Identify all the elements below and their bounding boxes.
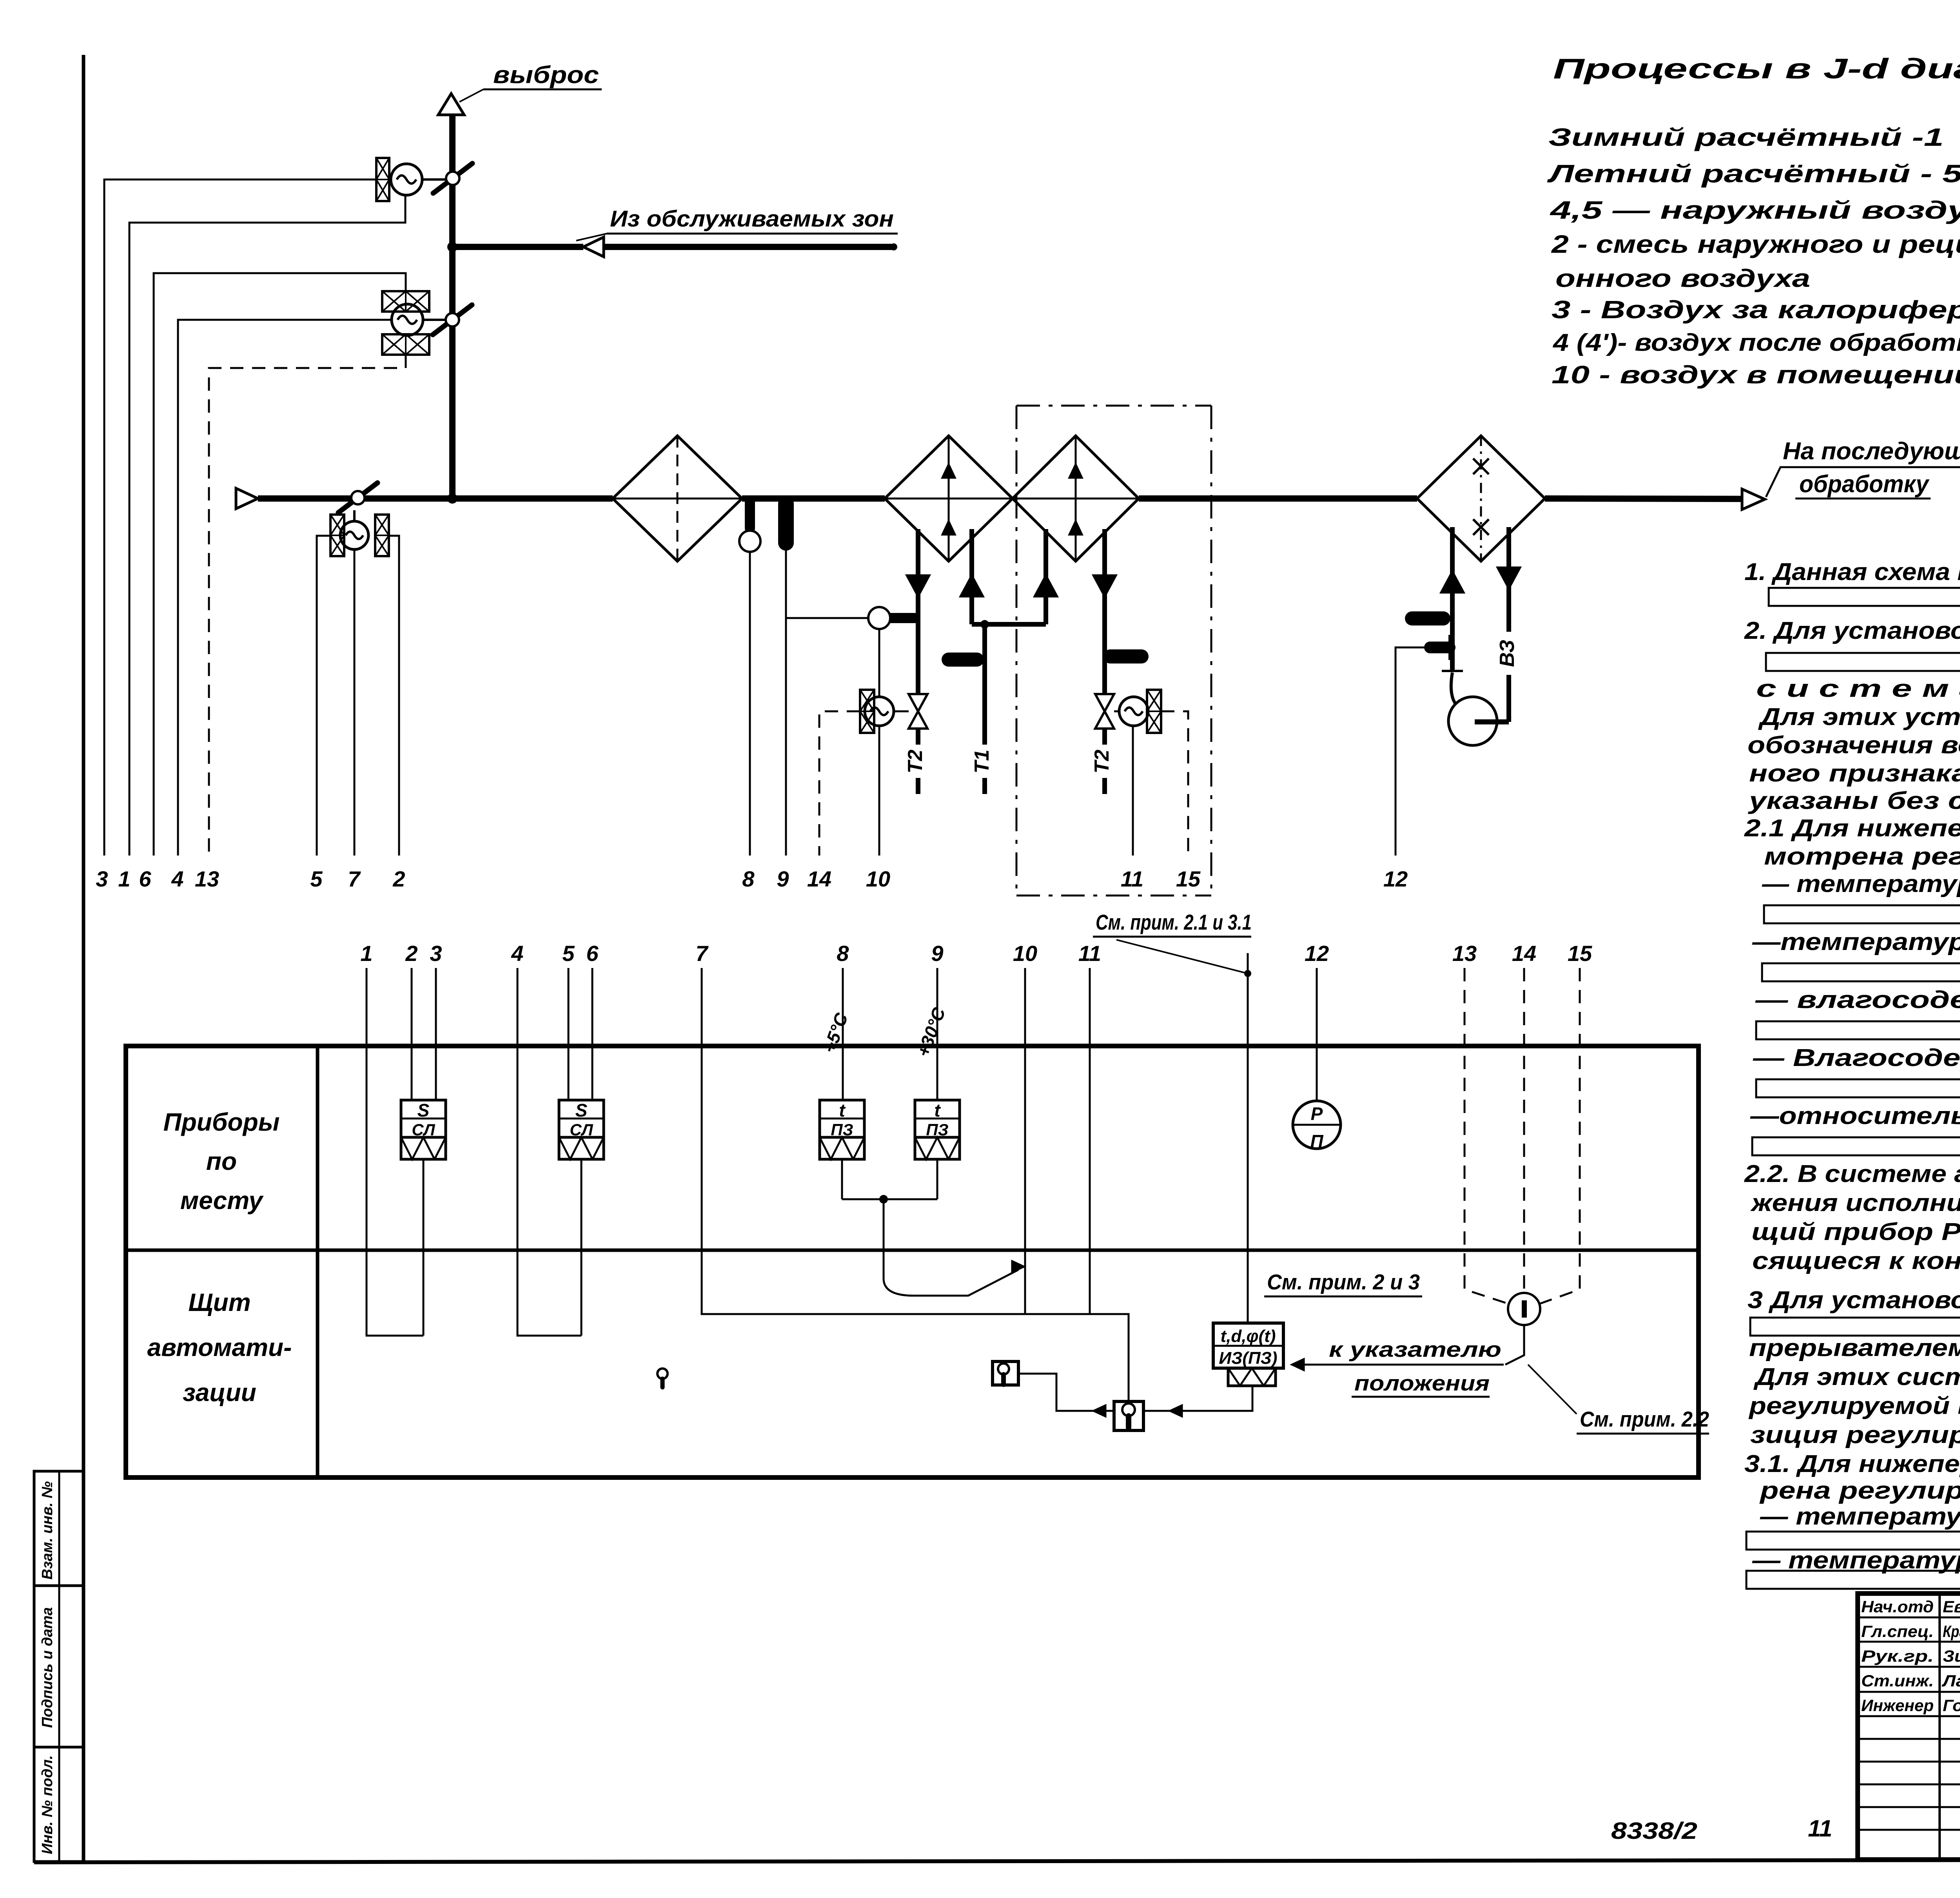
connector symbol	[657, 1369, 668, 1379]
svg-text:7: 7	[695, 941, 709, 966]
table line 14 dashed	[1523, 968, 1525, 1293]
sensor 9 thermometer black	[778, 504, 794, 543]
wire F3 right box to terminal 2	[389, 536, 399, 856]
note 3 blank box b	[1750, 1318, 1960, 1336]
svg-text:3: 3	[430, 941, 442, 966]
note 21 box row 4	[1756, 1079, 1960, 1097]
sheet bottom border	[34, 1859, 1960, 1862]
svg-text:зиция регулирующего прибора: зиция регулирующего прибора указаны в ск…	[1750, 1421, 1960, 1448]
svg-text:14: 14	[807, 867, 831, 891]
filter diamond	[613, 436, 742, 561]
regulator actuator hatch	[1228, 1368, 1276, 1386]
stems t instruments joined	[841, 1159, 843, 1199]
note 1 blank box	[1769, 588, 1960, 606]
svg-text:Гл.спец.: Гл.спец.	[1861, 1622, 1934, 1641]
spray pipe left up	[1450, 527, 1455, 671]
leader to zone label	[576, 234, 607, 241]
wire F2 to terminal 4	[178, 320, 392, 856]
table line 10	[1024, 968, 1026, 1314]
instrument table frame	[126, 1046, 1699, 1477]
svg-text:ВЗ: ВЗ	[1496, 640, 1519, 667]
thermometer on pipe heater2	[1110, 649, 1142, 663]
svg-text:Т2: Т2	[904, 750, 927, 774]
svg-text:S: S	[575, 1100, 588, 1120]
svg-text:7: 7	[348, 867, 361, 891]
svg-text:Т2: Т2	[1091, 750, 1113, 774]
svg-text:—относительной влажности в о: —относительной влажности в обслуживаемой…	[1750, 1102, 1960, 1129]
wire pipe sensor to line 9	[787, 617, 868, 619]
wire F3 left box to terminal 5	[317, 536, 330, 856]
exhaust fan F1	[391, 164, 422, 195]
table line 8	[842, 968, 844, 1100]
svg-text:1: 1	[360, 941, 372, 966]
svg-text:3: 3	[96, 867, 108, 891]
svg-text:Лазаренко: Лазаренко	[1942, 1671, 1960, 1690]
instrument S-SL box B	[559, 1100, 604, 1137]
svg-text:—температуры воды в поддоне: —температуры воды в поддоне камеры ороше…	[1752, 928, 1960, 955]
svg-text:Красошевский: Красошевский	[1943, 1622, 1960, 1641]
svg-text:Приборы: Приборы	[163, 1108, 280, 1136]
note 31 box row 2	[1746, 1571, 1960, 1589]
svg-text:2: 2	[405, 941, 417, 966]
svg-text:15: 15	[1568, 941, 1592, 966]
svg-text:Для этих систем в условном: Для этих систем в условном изображении р…	[1753, 1363, 1960, 1390]
svg-text:Инженер: Инженер	[1861, 1696, 1934, 1715]
svg-text:8: 8	[837, 941, 849, 966]
valve on pipe T2 heater1	[909, 694, 927, 711]
title block outer frame	[1858, 1593, 1960, 1860]
svg-text:Р: Р	[1311, 1104, 1323, 1124]
svg-text:зации: зации	[183, 1378, 256, 1407]
table line 3	[435, 968, 437, 1100]
table column divider	[316, 1046, 319, 1477]
svg-text:жения исполнительных механиз: жения исполнительных механизмов по встро…	[1750, 1189, 1960, 1216]
node junction recirculation	[447, 242, 457, 252]
svg-text:10: 10	[1013, 941, 1037, 966]
title block left table verticals	[1938, 1593, 1941, 1860]
stem instrument A	[423, 1159, 425, 1336]
valve actuator fan F5	[1119, 697, 1148, 726]
note 31 box row 1	[1746, 1532, 1960, 1550]
instrument t-PZ box C	[820, 1100, 864, 1137]
stem instrument B	[581, 1159, 583, 1336]
svg-text:— температуры воздуха за кам: — температуры воздуха за камерой орошени…	[1762, 870, 1960, 897]
actuator box of F4	[860, 690, 874, 733]
thermometer on spray pipe	[1412, 611, 1443, 625]
svg-text:12: 12	[1383, 867, 1408, 891]
pipe T2 heater1 down	[916, 529, 920, 694]
svg-text:— Влагосодержания в обслужива: — Влагосодержания в обслуживаемой зоне ,…	[1753, 1044, 1960, 1071]
svg-text:См. прим. 2.1 и 3.1: См. прим. 2.1 и 3.1	[1096, 910, 1252, 934]
svg-text:t,d,φ(t): t,d,φ(t)	[1221, 1327, 1276, 1346]
svg-text:13: 13	[195, 867, 219, 891]
return air inlet triangle	[583, 237, 604, 257]
duct outlet arrow	[1742, 489, 1765, 509]
svg-text:Рук.гр.: Рук.гр.	[1861, 1647, 1934, 1665]
svg-text:Зингерман: Зингерман	[1943, 1647, 1960, 1665]
svg-text:См. прим. 2 и 3: См. прим. 2 и 3	[1267, 1270, 1420, 1294]
heater 2 diamond	[1013, 436, 1139, 561]
note 21 box row 1	[1764, 905, 1960, 923]
wire F3 to terminal 7	[354, 549, 356, 856]
actuator box of F2 upper	[382, 291, 429, 312]
wire regulator to position indicator	[1292, 1364, 1504, 1366]
svg-text:9: 9	[931, 941, 943, 966]
regulator box t d phi	[1213, 1323, 1283, 1368]
svg-text:П: П	[1310, 1131, 1323, 1151]
svg-text:— температуры воздуха за ка: — температуры воздуха за камерой орошени…	[1760, 1503, 1960, 1530]
leader sm prim to line	[1116, 940, 1248, 973]
svg-text:3 - Воздух за калорифером: 3 - Воздух за калорифером	[1552, 295, 1960, 324]
svg-text:4: 4	[171, 867, 183, 891]
svg-text:4: 4	[511, 941, 523, 966]
svg-text:2 - смесь наружного и рециркул: 2 - смесь наружного и рециркуляци-	[1551, 230, 1960, 258]
spray pump circle	[1448, 697, 1497, 745]
pipe T2 heater2 down	[1102, 529, 1107, 694]
svg-text:мотрена регулирование следу: мотрена регулирование следующих параметр…	[1764, 843, 1960, 870]
table line 1	[367, 968, 423, 1336]
svg-text:6: 6	[586, 941, 599, 966]
table row divider	[126, 1249, 1699, 1252]
svg-text:ИЗ(ПЗ): ИЗ(ПЗ)	[1219, 1349, 1277, 1368]
heater 1 diamond	[885, 436, 1013, 561]
table line 12	[1316, 968, 1318, 1101]
svg-text:Зимний расчётный -1 →2→3→4: Зимний расчётный -1 →2→3→4	[1548, 123, 1960, 151]
svg-text:2. Для установок кондициониров: 2. Для установок кондиционирования	[1744, 617, 1960, 644]
svg-text:обозначения возможных регулиру: обозначения возможных регулируемых велич…	[1748, 732, 1960, 759]
outdoor air inlet triangle	[236, 488, 258, 509]
svg-text:с и с т е м а а в т о м а: с и с т е м а а в т о м а т и з а ц и и …	[1756, 675, 1960, 702]
regulator feed line	[1247, 953, 1249, 1323]
svg-text:положения: положения	[1354, 1371, 1490, 1395]
pump outlet elbow	[1475, 720, 1509, 725]
svg-text:2.2. В системе автоматизации: 2.2. В системе автоматизации 1 класса пр…	[1744, 1160, 1960, 1187]
svg-text:по: по	[206, 1147, 237, 1175]
node junction at main duct	[447, 493, 457, 504]
svg-text:щий прибор Р 25.1.2 индикат: щий прибор Р 25.1.2 индикатору. На схеме…	[1751, 1218, 1960, 1245]
valve actuator fan F4	[865, 697, 894, 726]
note 21 box row 2	[1762, 963, 1960, 981]
wire F2 lower box to terminal 13 dashed	[209, 355, 406, 856]
svg-text:10 - воздух в помещении: 10 - воздух в помещении	[1552, 361, 1960, 389]
damper D2 recirculation	[433, 305, 472, 335]
svg-text:На последующую: На последующую	[1783, 438, 1960, 465]
note 2 blank box b	[1766, 653, 1960, 671]
manual switch Q1	[993, 1361, 1018, 1385]
svg-text:14: 14	[1512, 941, 1536, 966]
main duct segment 4	[1545, 499, 1742, 499]
supply fan F3	[340, 521, 368, 549]
svg-text:2.1 Для нижеперечисленных ус: 2.1 Для нижеперечисленных установок конд…	[1744, 815, 1960, 842]
wire F5 to terminal 11	[1132, 726, 1134, 856]
svg-text:Евтушенко: Евтушенко	[1943, 1597, 1960, 1616]
actuator box of F5	[1147, 690, 1161, 733]
table line 2	[411, 968, 413, 1100]
thermometer on pipe T1	[949, 653, 977, 667]
svg-text:сящиеся к контролю положени: сящиеся к контролю положения , показаны …	[1752, 1247, 1960, 1274]
svg-text:11: 11	[1078, 941, 1101, 966]
table line 7 to switch	[702, 968, 1129, 1401]
svg-text:Т1: Т1	[971, 750, 993, 774]
svg-text:регулируемой величины и функ: регулируемой величины и функционального …	[1748, 1392, 1960, 1419]
pipe heater1 up	[969, 529, 974, 624]
table line 4	[517, 968, 581, 1336]
pressure gauge P-P	[1293, 1101, 1341, 1149]
pipe heater2 up	[1044, 529, 1048, 624]
svg-text:Горшенино: Горшенино	[1943, 1696, 1960, 1715]
svg-text:4 (4')- воздух после обработки: 4 (4')- воздух после обработки в 1 конту…	[1552, 329, 1960, 356]
left margin strip frame	[34, 1471, 83, 1862]
actuator box of F3 right	[375, 515, 389, 556]
main duct segment 2	[742, 495, 885, 502]
note 21 box row 5	[1752, 1137, 1960, 1155]
title block left table rows	[1858, 1617, 1960, 1619]
actuator box of F1	[376, 158, 389, 201]
svg-text:Инв. № подл.: Инв. № подл.	[39, 1755, 56, 1854]
second stage dash-dot box	[1016, 405, 1211, 407]
svg-text:Процессы в J-d диаграмме: Процессы в J-d диаграмме	[1553, 53, 1960, 85]
return air line	[452, 244, 583, 250]
svg-text:11: 11	[1808, 1815, 1832, 1842]
svg-text:Нач.отд: Нач.отд	[1861, 1597, 1934, 1616]
valve on pipe T2 heater2	[1095, 694, 1114, 711]
svg-text:Подпись и дата: Подпись и дата	[39, 1607, 56, 1728]
svg-text:рена регулирование следующих: рена регулирование следующих параметров …	[1759, 1477, 1960, 1504]
svg-text:1: 1	[118, 867, 130, 891]
wire sensor 9 to terminal 9	[785, 545, 787, 856]
pipe T1 supply	[982, 624, 987, 745]
svg-text:t: t	[934, 1100, 941, 1120]
manual switch Q2	[1114, 1401, 1143, 1430]
wire Q1 to Q2	[1018, 1374, 1114, 1411]
svg-text:обработку: обработку	[1799, 471, 1930, 498]
svg-text:9: 9	[777, 867, 789, 891]
label na posleduyushchuyu obrabotku	[1766, 467, 1960, 497]
leader to vybros	[459, 89, 483, 102]
table line 6	[592, 968, 593, 1100]
pipe header T1 horizontal	[972, 622, 1046, 627]
svg-text:S: S	[417, 1100, 430, 1120]
svg-text:8: 8	[742, 867, 755, 891]
svg-text:5: 5	[562, 941, 575, 966]
svg-text:5: 5	[310, 867, 323, 891]
position indicator contact circle	[1508, 1293, 1540, 1325]
svg-text:1. Данная схема применена для: 1. Данная схема применена для следующих …	[1744, 558, 1960, 586]
svg-text:t: t	[839, 1100, 846, 1120]
svg-text:онного воздуха: онного воздуха	[1555, 264, 1810, 292]
svg-text:См. прим. 2.2: См. прим. 2.2	[1580, 1407, 1709, 1431]
instrument t-PZ box D	[915, 1100, 960, 1137]
svg-text:10: 10	[866, 867, 890, 891]
svg-text:11: 11	[1121, 867, 1143, 891]
exhaust outlet triangle	[438, 94, 464, 115]
damper D3 on main duct	[338, 483, 377, 513]
exhaust duct vertical	[449, 115, 456, 499]
svg-text:автомати-: автомати-	[147, 1333, 292, 1361]
table line 9	[936, 968, 938, 1100]
svg-text:12: 12	[1305, 941, 1329, 966]
instrument S-SL box A	[401, 1100, 446, 1137]
svg-text:13: 13	[1452, 941, 1477, 966]
wire F2 upper box to terminal 6	[154, 273, 406, 856]
svg-text:2: 2	[392, 867, 405, 891]
main duct segment 1	[258, 495, 613, 502]
svg-text:Взам. инв. №: Взам. инв. №	[39, 1481, 56, 1580]
svg-text:месту: месту	[180, 1186, 264, 1215]
wire F5 box to terminal 15 dashed	[1161, 711, 1188, 856]
wire regulator to switch Q2	[1143, 1386, 1252, 1411]
note 21 box row 3	[1756, 1021, 1960, 1039]
wire indicator circle down	[1505, 1325, 1524, 1365]
svg-text:к указателю: к указателю	[1329, 1337, 1501, 1361]
wire t sensors to line 10	[884, 1199, 1018, 1296]
actuator box of F3 left	[330, 515, 344, 556]
svg-text:8338/2: 8338/2	[1611, 1818, 1697, 1844]
svg-text:Для этих установок в условном: Для этих установок в условном изображени…	[1758, 703, 1960, 731]
table line 15 dashed	[1538, 968, 1580, 1304]
pipe sensor circle heater1	[868, 607, 890, 629]
wire F1 box to terminal 3	[104, 179, 376, 856]
sensor 12 probe	[1430, 642, 1450, 653]
wire pipe sensor down	[878, 629, 880, 697]
svg-text:3 Для установок кондиционир: 3 Для установок кондиционирования	[1748, 1287, 1960, 1314]
svg-text:Щит: Щит	[188, 1288, 250, 1316]
svg-text:указаны без скобок.: указаны без скобок.	[1748, 787, 1960, 814]
recirculation fan F2	[392, 304, 423, 335]
table line 5	[568, 968, 570, 1100]
leader sm prim 2.2	[1528, 1365, 1577, 1414]
damper D1 on exhaust duct	[433, 163, 472, 193]
table line 11	[1089, 968, 1091, 1314]
svg-text:выброс: выброс	[493, 62, 599, 89]
main duct segment 3	[1139, 495, 1417, 502]
svg-text:3.1. Для нижеперечисленных у: 3.1. Для нижеперечисленных установок кон…	[1744, 1450, 1960, 1477]
wire sensor 12 to terminal 12	[1396, 647, 1429, 856]
svg-text:Летний расчётный - 5 → 4': Летний расчётный - 5 → 4'	[1547, 160, 1960, 188]
wire F4 box to terminal 14 dashed	[819, 711, 860, 856]
spray pipe right down	[1506, 527, 1511, 632]
sheet left border	[82, 55, 85, 1862]
wire sensor 8 to terminal 8	[749, 552, 751, 856]
sensor 8 thermometer	[745, 501, 755, 528]
svg-text:4,5 — наружный воздух: 4,5 — наружный воздух	[1549, 196, 1960, 224]
svg-text:Ст.инж.: Ст.инж.	[1861, 1671, 1934, 1690]
spray chamber diamond	[1417, 436, 1545, 561]
table line 13 dashed	[1465, 968, 1510, 1304]
svg-text:— влагосодержания за камерой: — влагосодержания за камерой орошения , …	[1755, 986, 1960, 1013]
svg-text:Из обслуживаемых зон: Из обслуживаемых зон	[610, 206, 894, 232]
actuator box of F2 lower	[382, 334, 429, 355]
svg-text:15: 15	[1176, 867, 1201, 891]
svg-text:6: 6	[139, 867, 151, 891]
wire F4 to terminal 10	[878, 726, 880, 856]
wire F1 to terminal 1	[129, 195, 405, 856]
return air line right part	[604, 244, 894, 250]
svg-text:прерывателем — с и с т е м а: прерывателем — с и с т е м а а в т о м а…	[1749, 1334, 1960, 1361]
svg-text:ного признака, а также позиция: ного признака, а также позиция регулирую…	[1749, 760, 1960, 787]
